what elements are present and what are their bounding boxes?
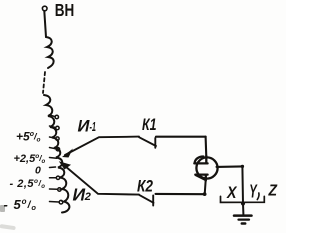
wiper arrow И2 [59,161,139,194]
tap 9 (-5%) [50,200,63,204]
switch К1 [139,137,156,148]
tap 3 (+5%) [50,137,60,140]
svg-text:Y: Y [249,182,258,202]
svg-text:0: 0 [35,165,41,177]
winding R upper section [46,37,54,68]
wire [205,137,208,157]
comma after Y [257,193,259,200]
tap 7 (-2,5%) [50,176,60,179]
winding R lower section [44,95,69,213]
wire [241,166,244,203]
tap 6 (0) [50,166,56,169]
wire [156,136,206,138]
svg-text:+2,5o/o: +2,5o/o [14,153,46,165]
arrester tube U1 [194,156,217,181]
wire [44,11,46,37]
wire [217,165,243,168]
svg-text:2: 2 [84,191,91,203]
svg-text:-1: -1 [90,120,97,134]
svg-text:X: X [226,184,237,202]
ground [234,204,252,224]
tap 8 [50,188,62,191]
tap 1 [50,115,59,119]
wiper arrow И-1 [62,137,139,158]
node [203,192,207,196]
node [241,201,245,205]
terminal ВН [42,6,47,11]
tap 5 (+2,5%) [50,157,57,160]
svg-text:+5o/o: +5o/o [16,130,40,144]
svg-text:- 5o/o: - 5o/o [4,197,37,212]
svg-text:К1: К1 [142,115,157,134]
wire [156,193,205,195]
switch К2 [139,195,154,206]
terminal strip [221,196,265,202]
svg-text:И: И [73,184,86,204]
tap 4 [50,148,60,151]
svg-text:К2: К2 [137,177,153,195]
winding break dashed [43,72,45,93]
wire tube bottom lead [205,180,206,194]
tap 2 [50,126,60,130]
svg-text:- 2,5o/o: - 2,5o/o [10,178,46,190]
node [241,165,244,168]
svg-text:Z: Z [268,183,278,200]
svg-text:ВН: ВН [55,0,75,20]
